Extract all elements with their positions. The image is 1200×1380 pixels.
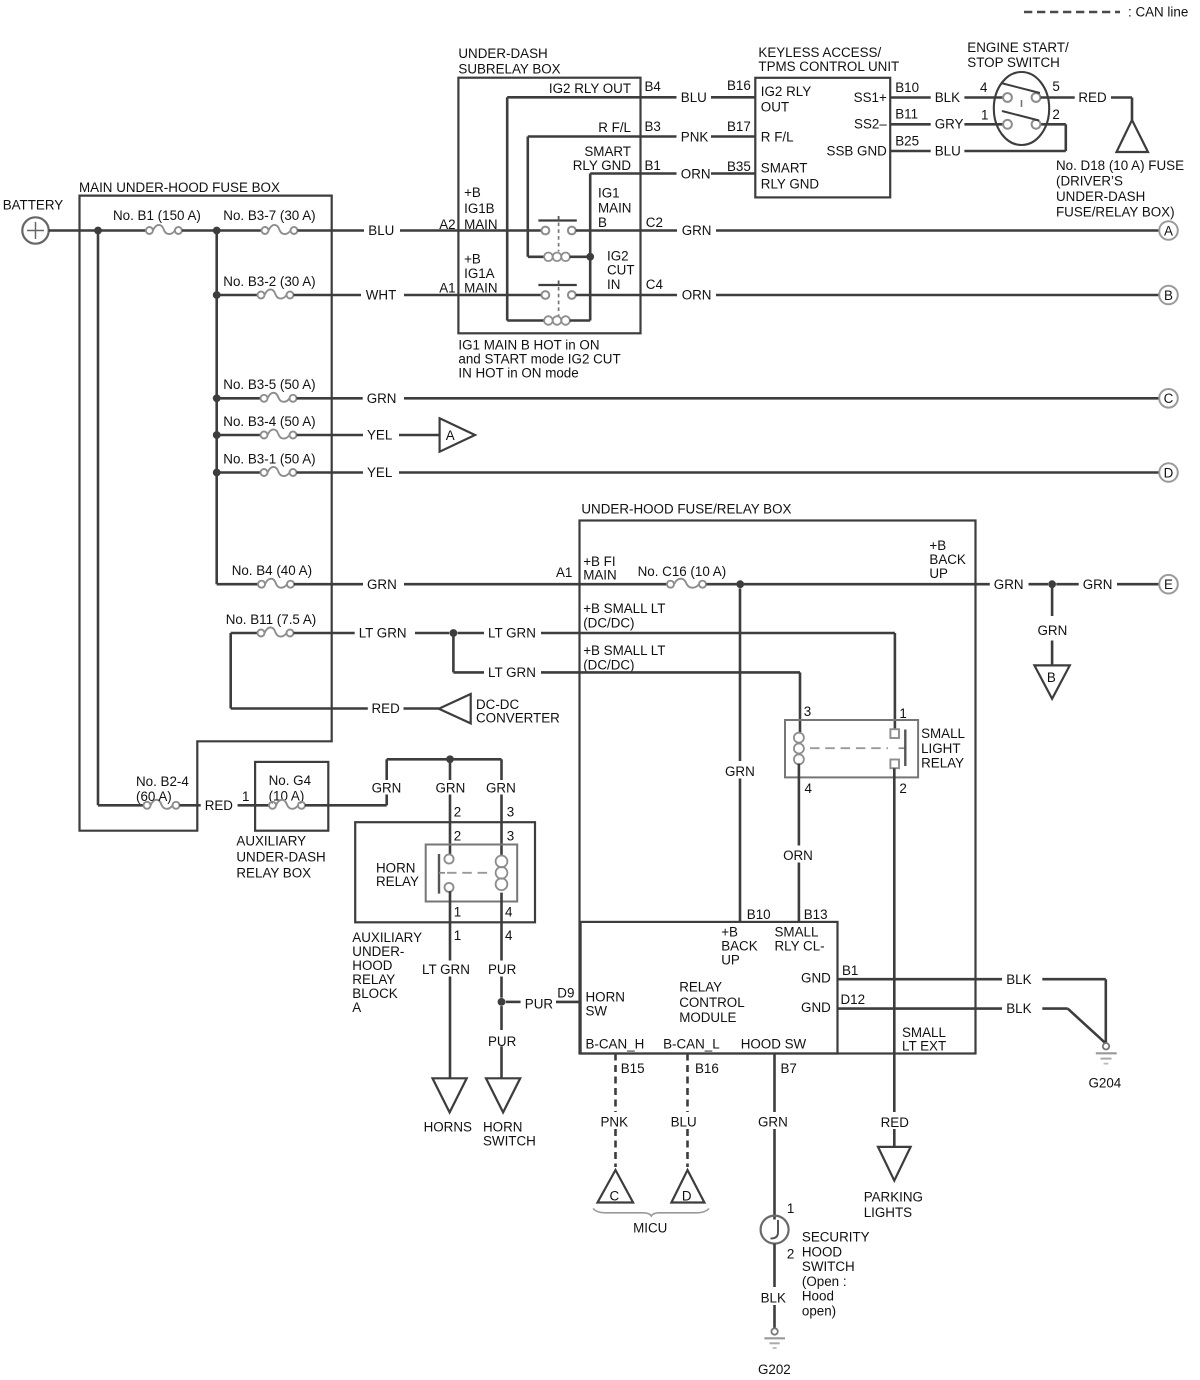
svg-text:No. B4 (40 A): No. B4 (40 A) (232, 563, 312, 578)
svg-text:UNDER-DASH: UNDER-DASH (458, 46, 547, 61)
svg-text:SSB GND: SSB GND (827, 144, 888, 159)
svg-text:2: 2 (454, 805, 461, 820)
svg-text:3: 3 (507, 829, 514, 844)
svg-text:SMALL: SMALL (775, 924, 819, 939)
svg-text:B13: B13 (804, 907, 828, 922)
svg-text:R F/L: R F/L (761, 130, 794, 145)
svg-text:ORN: ORN (681, 167, 711, 182)
svg-text:2: 2 (1052, 107, 1059, 122)
svg-text:UP: UP (929, 566, 948, 581)
svg-text:1: 1 (787, 1201, 794, 1216)
svg-text:UNDER-DASH: UNDER-DASH (1056, 189, 1145, 204)
svg-text:UNDER-: UNDER- (352, 944, 404, 959)
svg-text:WHT: WHT (366, 288, 397, 303)
svg-text:HORN: HORN (586, 990, 625, 1005)
svg-text:LIGHTS: LIGHTS (864, 1205, 912, 1220)
svg-text:4: 4 (980, 80, 988, 95)
svg-text:B15: B15 (621, 1061, 645, 1076)
svg-text:B11: B11 (895, 107, 918, 122)
svg-text:ORN: ORN (783, 848, 813, 863)
svg-text:LIGHT: LIGHT (921, 741, 960, 756)
svg-text:RED: RED (372, 701, 401, 716)
svg-text:AUXILIARY: AUXILIARY (236, 834, 306, 849)
svg-text:MAIN: MAIN (598, 201, 631, 216)
svg-text:B17: B17 (727, 119, 751, 134)
svg-text:FUSE/RELAY BOX): FUSE/RELAY BOX) (1056, 205, 1175, 220)
svg-text:RED: RED (881, 1115, 910, 1130)
svg-text:D9: D9 (557, 986, 574, 1001)
svg-text:CUT: CUT (607, 263, 635, 278)
svg-text:MICU: MICU (633, 1221, 667, 1236)
svg-text:B: B (1047, 670, 1056, 685)
svg-text:+B SMALL LT: +B SMALL LT (583, 601, 665, 616)
svg-text:PUR: PUR (488, 962, 517, 977)
svg-text:RELAY: RELAY (679, 979, 722, 994)
svg-text:RLY GND: RLY GND (761, 177, 820, 192)
svg-text:UNDER-HOOD FUSE/RELAY BOX: UNDER-HOOD FUSE/RELAY BOX (581, 502, 791, 517)
svg-text:and START mode IG2 CUT: and START mode IG2 CUT (458, 352, 620, 367)
svg-text:BLU: BLU (368, 223, 394, 238)
svg-text:PNK: PNK (601, 1115, 629, 1130)
svg-text:No. B11 (7.5 A): No. B11 (7.5 A) (226, 612, 317, 627)
svg-text:A: A (446, 428, 455, 443)
svg-text:+B: +B (464, 252, 481, 267)
svg-text:B-CAN_H: B-CAN_H (586, 1037, 645, 1052)
svg-text:+B SMALL LT: +B SMALL LT (583, 643, 665, 658)
svg-text:TPMS CONTROL UNIT: TPMS CONTROL UNIT (758, 59, 899, 74)
svg-text:B35: B35 (727, 159, 751, 174)
svg-text:No. B3-4 (50 A): No. B3-4 (50 A) (223, 414, 315, 429)
svg-text:BLU: BLU (681, 90, 707, 105)
svg-text:BLK: BLK (935, 90, 960, 105)
svg-text:No. B3-7 (30 A): No. B3-7 (30 A) (223, 208, 315, 223)
svg-text:PARKING: PARKING (864, 1190, 923, 1205)
svg-text:B: B (1164, 288, 1173, 303)
svg-text:SMALL: SMALL (921, 726, 965, 741)
svg-text:BLU: BLU (935, 144, 961, 159)
svg-text:B10: B10 (895, 80, 919, 95)
svg-text:C2: C2 (646, 215, 663, 230)
svg-text:SMART: SMART (761, 161, 808, 176)
svg-text:(DC/DC): (DC/DC) (583, 616, 634, 631)
svg-text:No. B2-4: No. B2-4 (136, 774, 189, 789)
svg-text:HOOD: HOOD (802, 1244, 843, 1259)
svg-text:BLU: BLU (671, 1115, 697, 1130)
svg-text:HORN: HORN (483, 1120, 522, 1135)
svg-text:open): open) (802, 1304, 836, 1319)
svg-text:IG2 RLY: IG2 RLY (761, 84, 811, 99)
svg-text:(60 A): (60 A) (136, 789, 172, 804)
svg-text:SWITCH: SWITCH (802, 1259, 855, 1274)
svg-text:1: 1 (242, 789, 249, 804)
svg-text:B3: B3 (645, 119, 661, 134)
svg-text:A1: A1 (556, 565, 572, 580)
svg-text:GRN: GRN (1038, 623, 1068, 638)
svg-text:Hood: Hood (802, 1289, 834, 1304)
svg-text:LT GRN: LT GRN (488, 626, 536, 641)
svg-text:RELAY: RELAY (376, 874, 419, 889)
svg-text:SS2–: SS2– (854, 117, 887, 132)
svg-text:SUBRELAY BOX: SUBRELAY BOX (458, 62, 560, 77)
svg-text:RLY GND: RLY GND (573, 158, 632, 173)
svg-text:GND: GND (801, 971, 831, 986)
svg-text:GRN: GRN (436, 781, 466, 796)
svg-text:RED: RED (1078, 90, 1107, 105)
svg-text:LT GRN: LT GRN (488, 665, 536, 680)
svg-text:R F/L: R F/L (598, 120, 631, 135)
svg-text:BACK: BACK (929, 552, 966, 567)
svg-text:BLOCK: BLOCK (352, 986, 397, 1001)
svg-text:1: 1 (899, 706, 906, 721)
svg-text:PUR: PUR (488, 1034, 517, 1049)
svg-text:BLK: BLK (1006, 972, 1031, 987)
svg-text:1: 1 (981, 108, 988, 123)
svg-text:GRN: GRN (486, 781, 516, 796)
svg-text:GRN: GRN (367, 577, 397, 592)
svg-text:IN HOT in ON mode: IN HOT in ON mode (458, 366, 578, 381)
svg-text:+B: +B (464, 185, 481, 200)
svg-text:MAIN UNDER-HOOD FUSE BOX: MAIN UNDER-HOOD FUSE BOX (79, 180, 280, 195)
svg-text:RELAY BOX: RELAY BOX (236, 866, 311, 881)
svg-text:B4: B4 (645, 79, 662, 94)
svg-text:GRN: GRN (994, 577, 1024, 592)
svg-text:B1: B1 (842, 963, 858, 978)
svg-text:LT GRN: LT GRN (422, 962, 470, 977)
svg-text:GRY: GRY (935, 117, 964, 132)
svg-text:1: 1 (454, 928, 461, 943)
svg-text:YEL: YEL (367, 428, 392, 443)
svg-text:C: C (1164, 391, 1174, 406)
svg-text:RELAY: RELAY (352, 972, 395, 987)
svg-text:LT EXT: LT EXT (902, 1039, 946, 1054)
svg-text:SWITCH: SWITCH (483, 1134, 536, 1149)
svg-text:+B: +B (721, 924, 738, 939)
svg-text:C: C (610, 1189, 620, 1204)
svg-text:A2: A2 (439, 217, 455, 232)
svg-text:MAIN: MAIN (464, 281, 497, 296)
svg-text:D: D (682, 1189, 692, 1204)
svg-text:5: 5 (1052, 79, 1059, 94)
svg-text:SMART: SMART (584, 144, 631, 159)
svg-text:A1: A1 (439, 281, 455, 296)
svg-text:IG2 RLY OUT: IG2 RLY OUT (549, 81, 631, 96)
svg-text:No. G4: No. G4 (269, 773, 312, 788)
svg-text:MAIN: MAIN (464, 217, 497, 232)
svg-text:IG2: IG2 (607, 248, 629, 263)
svg-text:IG1B: IG1B (464, 201, 495, 216)
svg-text:: CAN line: : CAN line (1128, 5, 1188, 20)
svg-text:IG1: IG1 (598, 186, 620, 201)
svg-text:LT GRN: LT GRN (359, 626, 407, 641)
svg-text:SECURITY: SECURITY (802, 1230, 870, 1245)
svg-text:RELAY: RELAY (921, 756, 964, 771)
svg-text:C4: C4 (646, 277, 664, 292)
svg-text:HOOD SW: HOOD SW (741, 1037, 807, 1052)
svg-text:(DRIVER’S: (DRIVER’S (1056, 174, 1123, 189)
svg-text:B1: B1 (645, 158, 661, 173)
svg-text:ENGINE START/: ENGINE START/ (967, 40, 1069, 55)
svg-text:PUR: PUR (525, 997, 554, 1012)
svg-text:B10: B10 (747, 907, 771, 922)
svg-text:2: 2 (454, 829, 461, 844)
svg-text:BACK: BACK (721, 938, 758, 953)
svg-text:HORNS: HORNS (424, 1120, 472, 1135)
svg-text:SS1+: SS1+ (854, 90, 887, 105)
svg-text:No. B3-1 (50 A): No. B3-1 (50 A) (223, 452, 315, 467)
svg-text:3: 3 (507, 805, 514, 820)
svg-text:PNK: PNK (681, 130, 709, 145)
svg-text:B16: B16 (695, 1061, 719, 1076)
svg-text:GRN: GRN (682, 223, 712, 238)
svg-text:No. B1 (150 A): No. B1 (150 A) (113, 208, 201, 223)
svg-text:GRN: GRN (372, 781, 402, 796)
svg-text:B-CAN_L: B-CAN_L (663, 1037, 720, 1052)
svg-text:STOP SWITCH: STOP SWITCH (967, 55, 1060, 70)
svg-text:D12: D12 (841, 992, 866, 1007)
svg-text:4: 4 (805, 781, 813, 796)
svg-text:UNDER-DASH: UNDER-DASH (236, 850, 325, 865)
svg-text:1: 1 (454, 904, 461, 919)
svg-text:3: 3 (804, 704, 811, 719)
svg-text:RED: RED (205, 798, 234, 813)
svg-text:SW: SW (586, 1004, 608, 1019)
svg-text:IG1A: IG1A (464, 266, 495, 281)
svg-text:B7: B7 (781, 1061, 797, 1076)
svg-text:No. B3-2 (30 A): No. B3-2 (30 A) (223, 274, 315, 289)
svg-text:G202: G202 (758, 1362, 791, 1377)
svg-text:KEYLESS ACCESS/: KEYLESS ACCESS/ (758, 45, 881, 60)
svg-text:RLY CL-: RLY CL- (775, 938, 825, 953)
svg-text:HOOD: HOOD (352, 958, 393, 973)
svg-text:IN: IN (607, 277, 620, 292)
svg-text:(DC/DC): (DC/DC) (583, 658, 634, 673)
svg-text:YEL: YEL (367, 465, 392, 480)
svg-text:MODULE: MODULE (679, 1010, 736, 1025)
svg-text:BLK: BLK (761, 1291, 786, 1306)
svg-text:4: 4 (505, 904, 513, 919)
svg-text:+B: +B (929, 538, 946, 553)
svg-text:A: A (352, 1000, 361, 1015)
svg-text:4: 4 (505, 928, 513, 943)
svg-text:IG1 MAIN B HOT in ON: IG1 MAIN B HOT in ON (458, 338, 599, 353)
svg-text:BLK: BLK (1006, 1001, 1031, 1016)
svg-text:G204: G204 (1089, 1076, 1122, 1091)
svg-text:A: A (1164, 223, 1173, 238)
svg-text:No. B3-5 (50 A): No. B3-5 (50 A) (223, 377, 315, 392)
svg-text:No. D18 (10 A) FUSE: No. D18 (10 A) FUSE (1056, 158, 1184, 173)
svg-text:B16: B16 (727, 78, 751, 93)
svg-text:BATTERY: BATTERY (3, 198, 64, 213)
svg-text:OUT: OUT (761, 100, 789, 115)
svg-text:D: D (1164, 465, 1174, 480)
svg-text:GRN: GRN (725, 764, 755, 779)
svg-text:GND: GND (801, 1000, 831, 1015)
svg-text:E: E (1164, 577, 1173, 592)
svg-text:ORN: ORN (682, 288, 712, 303)
svg-text:CONTROL: CONTROL (679, 995, 744, 1010)
svg-text:AUXILIARY: AUXILIARY (352, 930, 422, 945)
svg-text:B: B (598, 215, 607, 230)
svg-text:GRN: GRN (1083, 577, 1113, 592)
svg-text:GRN: GRN (367, 391, 397, 406)
svg-text:(Open :: (Open : (802, 1274, 847, 1289)
svg-text:GRN: GRN (758, 1115, 788, 1130)
svg-text:MAIN: MAIN (583, 568, 616, 583)
svg-text:No. C16 (10 A): No. C16 (10 A) (638, 564, 727, 579)
svg-text:2: 2 (787, 1247, 794, 1262)
svg-text:2: 2 (899, 781, 906, 796)
svg-text:B25: B25 (895, 134, 919, 149)
svg-text:UP: UP (721, 952, 740, 967)
svg-text:CONVERTER: CONVERTER (476, 711, 560, 726)
